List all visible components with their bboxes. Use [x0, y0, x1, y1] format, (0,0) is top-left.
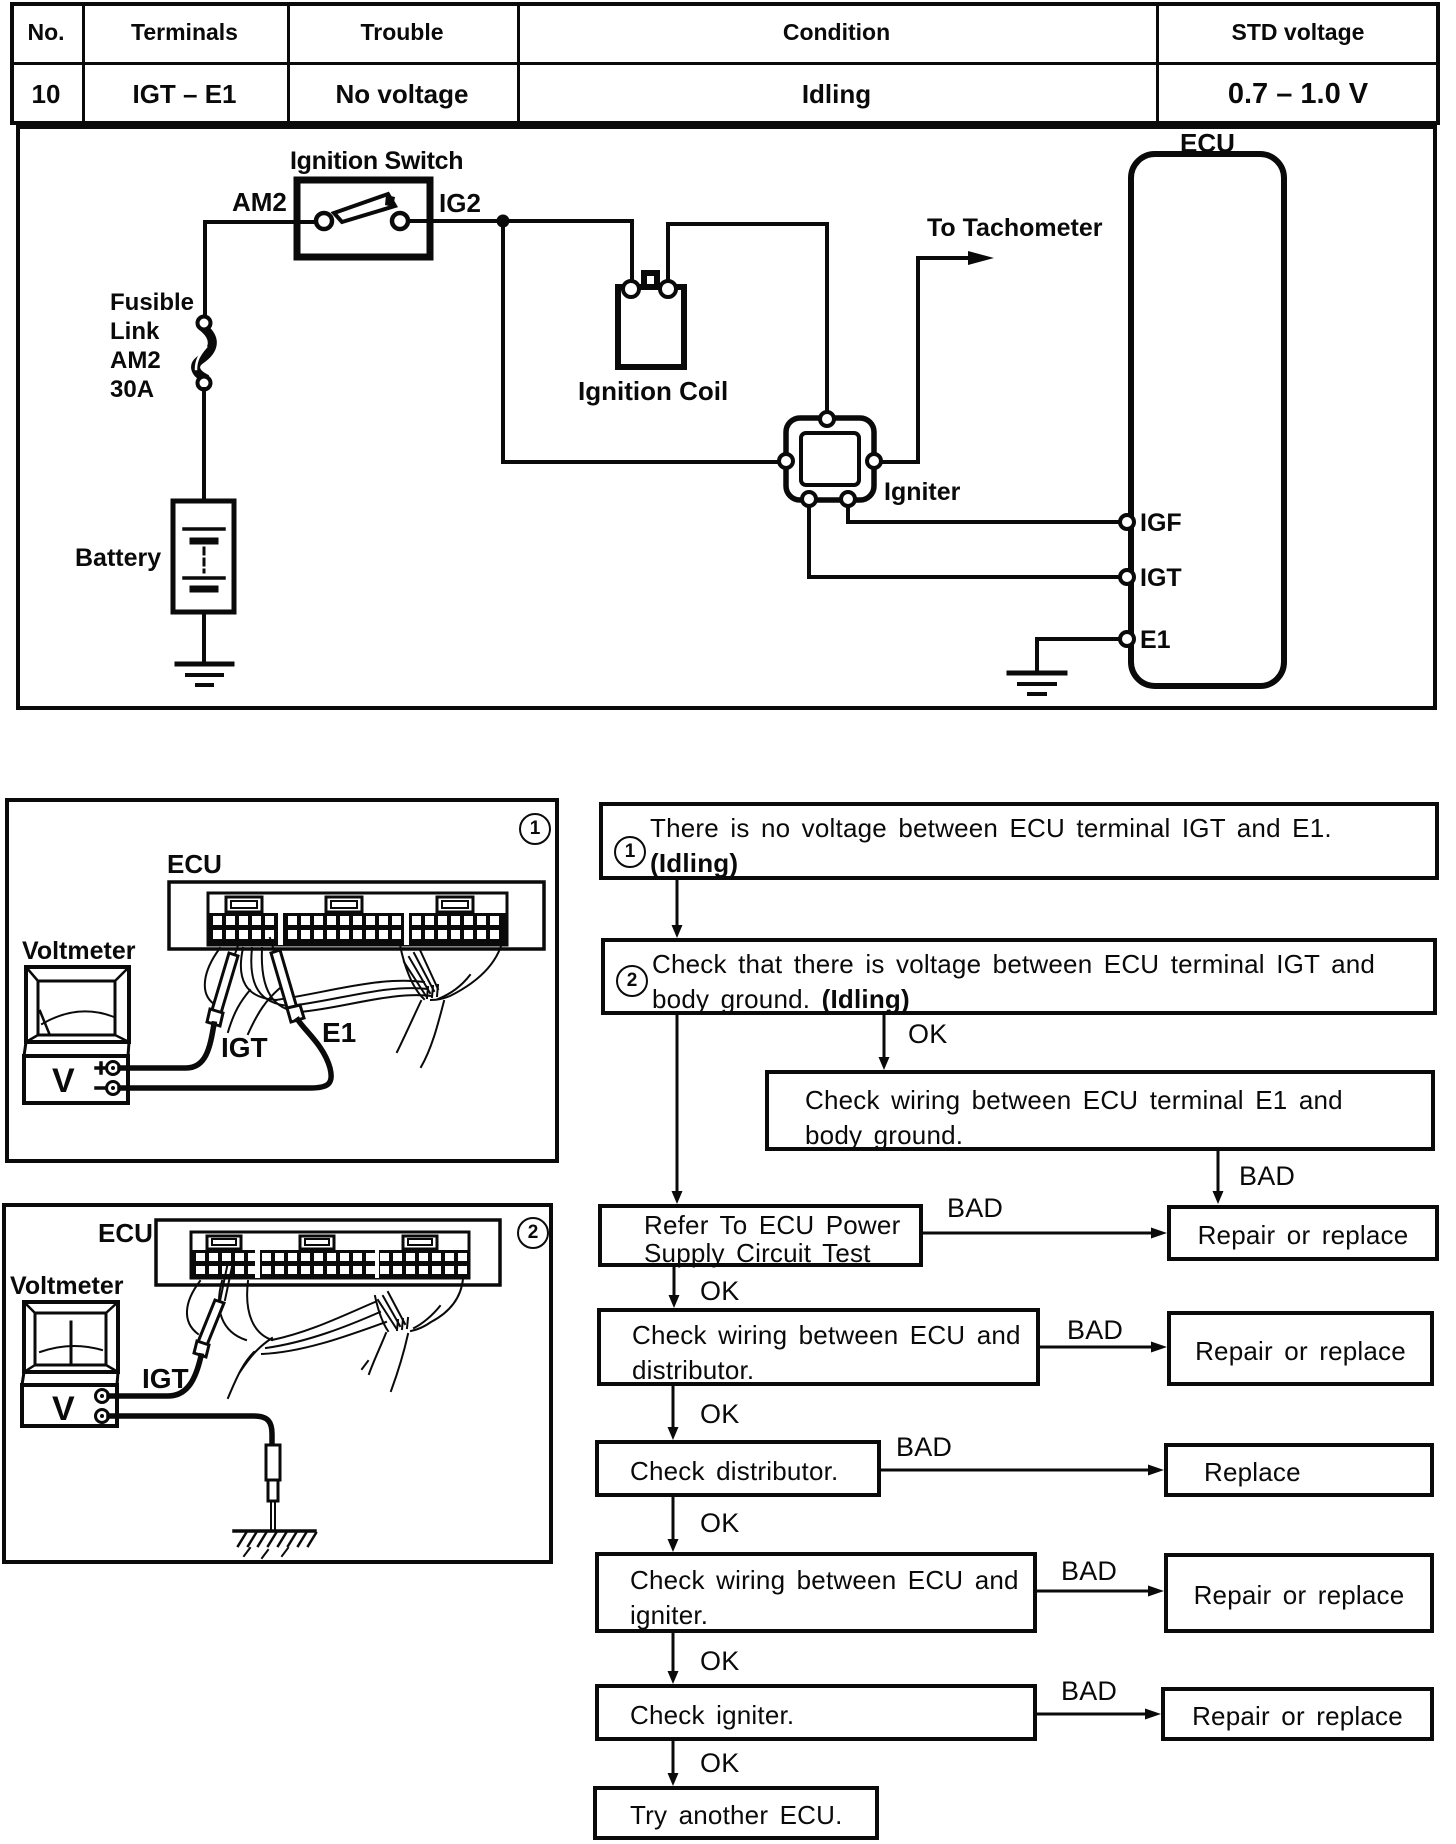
table column divider x=82	[82, 2, 85, 125]
flow label OK 2	[700, 1276, 739, 1307]
flow step 2 box	[601, 938, 1437, 1015]
battery ground symbol	[177, 664, 232, 685]
flow step 1 box	[599, 802, 1439, 880]
test probe IGT (illustration 1)	[207, 940, 240, 1026]
label AM2 terminal	[232, 187, 287, 218]
pin label IGF	[1140, 509, 1182, 538]
flow check igniter box	[595, 1684, 1037, 1741]
label Voltmeter (illustration 1)	[22, 937, 135, 966]
header cell STD voltage	[1156, 2, 1440, 62]
ignition coil T1	[618, 273, 684, 367]
spec table outer border	[10, 2, 1440, 125]
ECU case (illustration 1)	[169, 882, 544, 949]
wire harness bundles (illustration 2)	[187, 1279, 463, 1398]
wire igniter to ECU IGT	[809, 506, 1120, 577]
E1 ground symbol	[1009, 673, 1065, 694]
flow label OK 1	[908, 1019, 947, 1050]
test probe E1 (illustration 1)	[270, 938, 304, 1022]
ECU connector assembly (illustration 2)	[191, 1232, 469, 1278]
probe label IGT (illustration 1)	[221, 1032, 268, 1064]
schematic enclosure box	[16, 125, 1437, 710]
wire fusible link to battery	[202, 389, 206, 501]
flow replace box	[1164, 1443, 1434, 1497]
illustration box 2 frame	[2, 1203, 553, 1564]
label Igniter	[884, 478, 960, 507]
pin label E1	[1140, 626, 1171, 655]
header cell Trouble	[287, 2, 517, 62]
flow label BAD 1	[1239, 1161, 1295, 1192]
label Fusible Link AM2 30A	[110, 288, 194, 404]
body ground hatching (illustration 2)	[234, 1531, 316, 1558]
table column divider x=1156	[1156, 2, 1159, 125]
flow repair or replace box 2	[1167, 1311, 1434, 1386]
voltmeter (illustration 2)	[22, 1302, 118, 1426]
flow label BAD 5	[1061, 1556, 1117, 1587]
label Ignition Switch	[290, 147, 463, 176]
data cell Idling	[517, 65, 1156, 123]
flow refer to ECU power supply circuit test box	[598, 1204, 923, 1267]
label Battery	[75, 544, 161, 573]
circled number 2 (illustration)	[517, 1217, 549, 1249]
flow repair or replace box 4	[1161, 1687, 1434, 1741]
wire ECU E1 to ground	[1037, 639, 1120, 673]
flow label BAD 2	[947, 1193, 1003, 1224]
voltmeter V label (illustration 2)	[52, 1390, 75, 1429]
label IG2 terminal	[439, 188, 481, 219]
wire junction to igniter left	[503, 221, 778, 462]
flow label OK 5	[700, 1646, 739, 1677]
table column divider x=287	[287, 2, 290, 125]
voltmeter minus lead wire to ground probe (illustration 2)	[109, 1416, 272, 1445]
wire switch IG2 to ignition coil + junction node	[408, 215, 632, 283]
flow label BAD 6	[1061, 1676, 1117, 1707]
wire harness bundles (illustration 1)	[205, 934, 504, 1067]
wire igniter to ECU IGF	[848, 506, 1120, 522]
label To Tachometer	[927, 214, 1103, 243]
label ECU (illustration 2)	[98, 1218, 153, 1249]
probe label E1 (illustration 1)	[322, 1017, 356, 1049]
flow label BAD 3	[1067, 1315, 1123, 1346]
table column divider x=517	[517, 2, 520, 125]
header cell No.	[10, 2, 82, 62]
wire coil to igniter top	[668, 224, 827, 411]
ECU case (illustration 2)	[156, 1220, 500, 1285]
flow check distributor box	[595, 1440, 881, 1497]
wire battery to switch AM2	[205, 222, 317, 317]
flow label OK 3	[700, 1399, 739, 1430]
voltmeter (illustration 1)	[24, 967, 129, 1103]
label ECU (schematic)	[1180, 128, 1235, 159]
probe label IGT (illustration 2)	[142, 1363, 189, 1395]
flow check wiring ECU-distributor box	[597, 1308, 1040, 1386]
illustration box 1 frame	[5, 798, 559, 1163]
label Ignition Coil	[578, 376, 728, 407]
wire igniter right to tachometer arrow	[882, 251, 994, 462]
data cell 10	[10, 65, 82, 123]
ignition switch SW1	[297, 180, 430, 257]
data cell IGT - E1	[82, 65, 287, 123]
ground probe (illustration 2)	[266, 1445, 280, 1529]
fusible link FL AM2 30A	[196, 317, 213, 390]
test probe IGT (illustration 2)	[194, 1262, 233, 1357]
flow step check wiring E1-body ground box	[765, 1070, 1435, 1151]
ECU connector assembly (illustration 1)	[208, 893, 507, 945]
voltmeter V label (illustration 1)	[52, 1062, 75, 1101]
pin label IGT	[1140, 564, 1182, 593]
label ECU (illustration 1)	[167, 849, 222, 880]
header cell Terminals	[82, 2, 287, 62]
flow label BAD 4	[896, 1432, 952, 1463]
battery B1	[173, 501, 234, 612]
flow try another ECU box	[593, 1786, 879, 1840]
voltmeter plus lead wire (illustration 2)	[109, 1356, 201, 1396]
circled number 1 (illustration)	[519, 813, 551, 845]
flow check wiring ECU-igniter box	[595, 1552, 1037, 1633]
voltmeter minus lead wire (illustration 1)	[120, 1020, 331, 1088]
data cell No voltage	[287, 65, 517, 123]
wire battery to ground	[202, 612, 206, 664]
data cell STD value	[1156, 65, 1440, 123]
header cell Condition	[517, 2, 1156, 62]
table header row divider	[10, 62, 1440, 65]
voltmeter plus lead wire (illustration 1)	[120, 1024, 214, 1068]
flow label OK 4	[700, 1508, 739, 1539]
label Voltmeter (illustration 2)	[10, 1272, 123, 1301]
igniter U1	[779, 412, 881, 506]
flow label OK 6	[700, 1748, 739, 1779]
flow repair or replace box 3	[1164, 1553, 1434, 1633]
ECU block	[1120, 154, 1284, 686]
plus minus marks (illustration 1)	[96, 1063, 106, 1088]
flow repair or replace box 1	[1167, 1205, 1439, 1261]
